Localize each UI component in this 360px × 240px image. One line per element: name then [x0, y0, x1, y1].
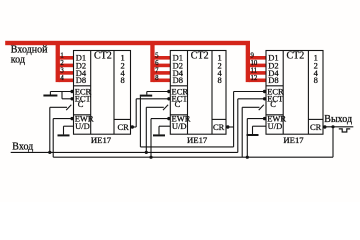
wire: U3 CR to output: [325, 126, 354, 128]
svg-text:C: C: [78, 99, 84, 109]
svg-text:ИЕ17: ИЕ17: [187, 135, 208, 145]
svg-text:12: 12: [251, 75, 258, 82]
svg-text:C: C: [270, 99, 276, 109]
svg-text:U/D: U/D: [172, 121, 187, 131]
wire: write rail: [53, 156, 333, 158]
U3 dynamic clock input marker: [259, 105, 264, 110]
U1 dynamic clock input marker: [66, 105, 71, 110]
counter U3 (ИЕ17) body: [266, 51, 323, 135]
svg-text:2: 2: [60, 60, 64, 67]
wire: clock input rail: [11, 151, 238, 153]
svg-text:CR: CR: [213, 122, 225, 132]
level bar symbol for U2 ECR: [140, 95, 152, 97]
wire: branch to U1 ECT: [62, 92, 73, 99]
svg-text:U/D: U/D: [268, 121, 283, 131]
U2 output labels 1 2 4 8: [217, 53, 222, 85]
U3 CR output dot: [323, 125, 326, 128]
svg-text:код: код: [11, 54, 25, 65]
wire: rail1: [140, 146, 233, 148]
svg-text:Вход: Вход: [12, 142, 33, 153]
U2 field dividers: [170, 51, 226, 135]
U2 input labels D1 D2 D4 D8: [173, 53, 184, 85]
ground bar U1 U/D: [58, 134, 70, 136]
counter U1 (ИЕ17) body: [74, 51, 131, 135]
U2 dynamic clock input marker: [163, 105, 168, 110]
wire: clock to U1 C: [50, 107, 67, 152]
wire: red bus branch to counter 3 D inputs: [246, 44, 266, 82]
junction: U3 EWR on write rail: [246, 156, 249, 159]
wire: U3 EWR riser: [247, 119, 265, 158]
pin numbers 9-12: [251, 52, 258, 82]
svg-text:4: 4: [60, 75, 64, 82]
svg-text:6: 6: [155, 60, 159, 67]
U2 control labels ECR ECT C EWR U/D: [172, 86, 191, 131]
U2 pin inversion dots ECR ECT EWR: [167, 90, 170, 121]
svg-text:D8: D8: [173, 75, 183, 85]
U3 output labels 1 2 4 8: [314, 53, 319, 85]
U1 pin inversion dots ECR ECT EWR: [70, 90, 73, 121]
wire: U1 U/D to ground: [64, 126, 74, 134]
svg-text:8: 8: [155, 75, 159, 82]
wire: clock rail riser to U3 ECT: [238, 99, 265, 153]
svg-text:10: 10: [251, 60, 258, 67]
counter U2 (ИЕ17) body: [170, 51, 226, 135]
svg-text:U/D: U/D: [75, 121, 90, 131]
level bar symbol for U1 ECR/ECT: [43, 95, 57, 97]
wire: red bus branch to counter 1 D inputs: [56, 44, 74, 82]
wire: U2 bar down to rail1: [139, 97, 141, 147]
svg-text:CT2: CT2: [287, 50, 305, 61]
junction: U2 EWR on write rail: [149, 156, 152, 159]
U2 CR output dot: [226, 125, 229, 128]
svg-text:9: 9: [251, 52, 255, 59]
U3 control labels ECR ECT C EWR U/D: [267, 86, 286, 131]
U3 field dividers: [266, 51, 323, 135]
node label: Входной код: [11, 44, 48, 65]
pin numbers 5-8: [155, 52, 159, 82]
wire: rail1 riser to U3 ECR: [234, 92, 265, 147]
output pulse waveform symbol: [339, 129, 350, 132]
wire: bar to U2 ECR: [147, 92, 170, 95]
svg-text:CR: CR: [118, 122, 130, 132]
wire: U2 U/D to ground: [159, 126, 170, 134]
svg-text:8: 8: [314, 75, 318, 85]
wire: red bus branch to counter 2 D inputs: [150, 44, 170, 82]
junction: output node: [331, 125, 334, 128]
wire: bar to U1 ECR: [50, 92, 72, 95]
svg-text:CT2: CT2: [94, 50, 112, 61]
svg-text:7: 7: [155, 67, 159, 74]
svg-text:ИЕ17: ИЕ17: [91, 135, 112, 145]
wire: clock to U2 C: [146, 107, 164, 152]
U1 field dividers: [74, 51, 131, 135]
svg-text:C: C: [175, 99, 181, 109]
U1 CR output dot: [131, 125, 134, 128]
svg-text:D8: D8: [76, 75, 86, 85]
pin numbers 1-4: [60, 52, 64, 82]
node: input code bus (red): [5, 41, 250, 45]
junction: U2 C on clock rail: [145, 151, 148, 154]
ground bar U2 U/D: [153, 134, 165, 136]
svg-text:Выход: Выход: [324, 114, 352, 125]
junction: U1 C on clock rail: [48, 151, 51, 154]
svg-text:CT2: CT2: [191, 50, 209, 61]
U1 input labels D1 D2 D4 D8: [76, 53, 87, 85]
U3 pin inversion dots ECR ECT EWR: [263, 90, 266, 121]
U1 output labels 1 2 4 8: [120, 53, 125, 85]
wire: U2 EWR down to write rail: [151, 119, 169, 158]
U3 input labels D1 D2 D4 D8: [268, 53, 279, 85]
wire: U3 C riser: [242, 107, 259, 157]
svg-text:3: 3: [60, 67, 64, 74]
svg-text:11: 11: [251, 67, 258, 74]
wire: U1 CR to U2 ECT: [132, 99, 169, 127]
wire: U3 U/D to ground: [253, 126, 267, 134]
svg-text:ИЕ17: ИЕ17: [283, 135, 304, 145]
svg-text:D8: D8: [268, 75, 278, 85]
svg-text:5: 5: [155, 52, 159, 59]
wire: U1 EWR down to write rail: [53, 119, 72, 158]
wire: output feedback down to write rail: [332, 127, 334, 157]
svg-text:CR: CR: [310, 122, 322, 132]
U1 control labels ECR ECT C EWR U/D: [75, 86, 94, 131]
ground bar U3 U/D: [247, 134, 259, 136]
svg-text:8: 8: [217, 75, 221, 85]
svg-text:1: 1: [60, 52, 63, 59]
svg-text:8: 8: [120, 75, 124, 85]
wire: U2 CR to rail1 riser: [228, 126, 234, 128]
